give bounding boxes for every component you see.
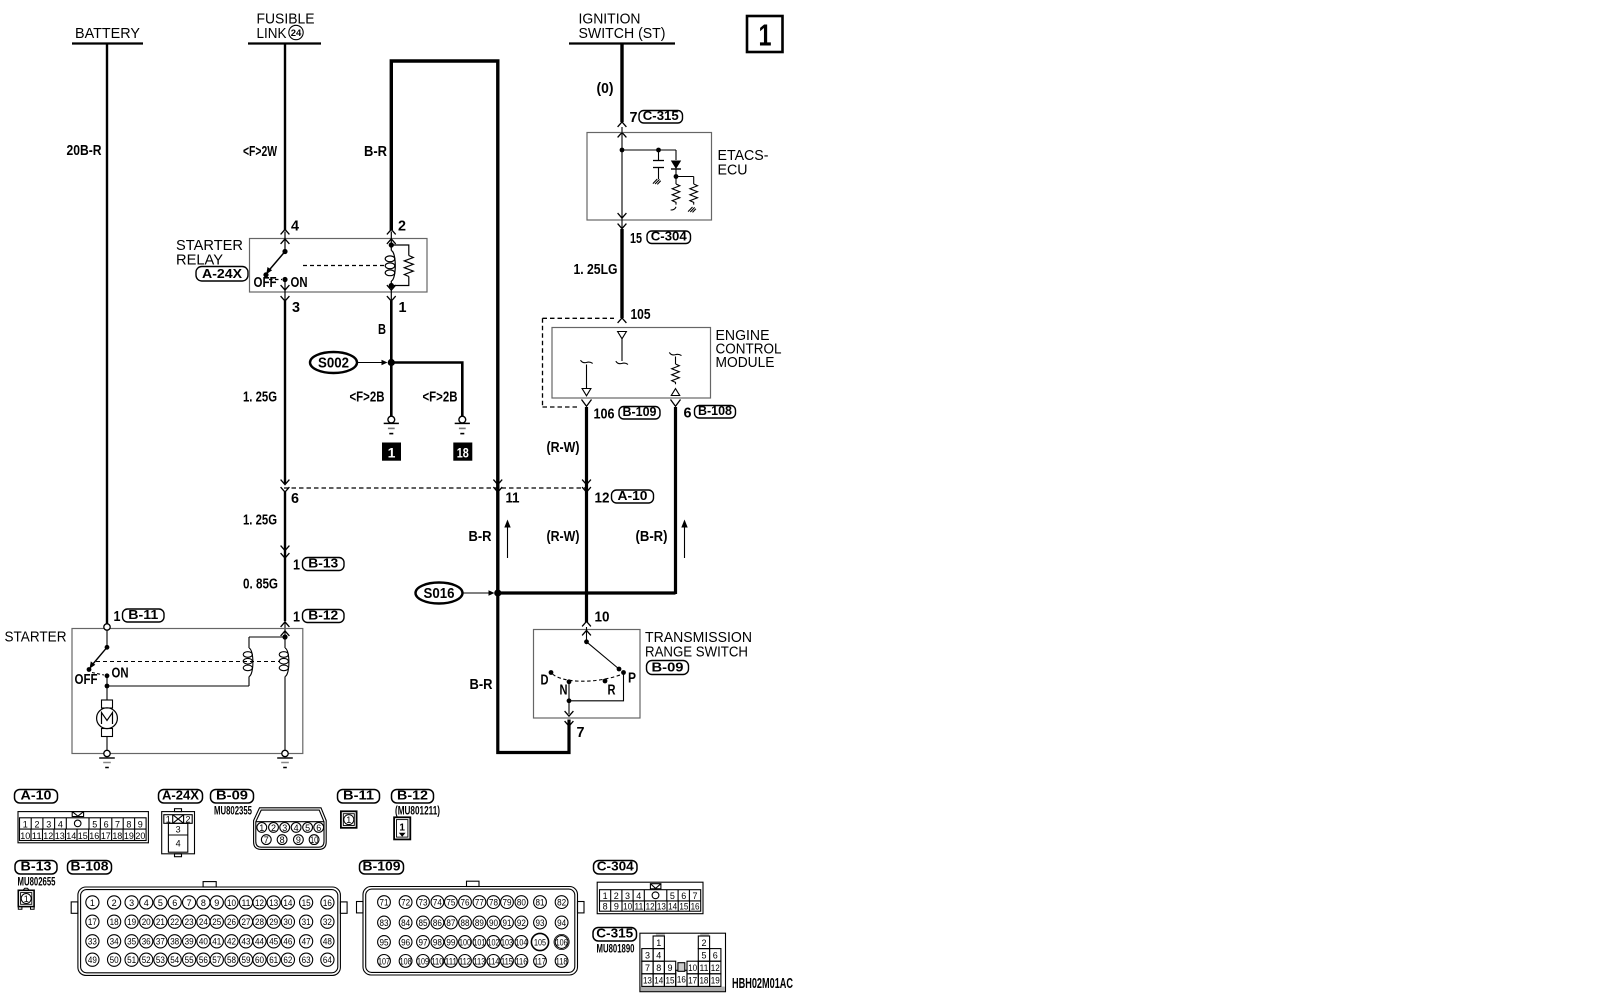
svg-text:15: 15 [630, 231, 642, 247]
starter OFF-ON dashed link [92, 673, 104, 676]
wire B-R from ECM 6 down to S016 [674, 407, 677, 594]
svg-text:C-304: C-304 [651, 228, 688, 243]
svg-text:44: 44 [255, 937, 264, 947]
svg-text:HBH02M01AC: HBH02M01AC [732, 976, 793, 992]
svg-text:B-09: B-09 [652, 659, 684, 674]
label pin 6 A-10 [291, 491, 299, 507]
starter motor M [97, 686, 118, 750]
svg-text:31: 31 [302, 917, 311, 927]
ETACS resistor 2 ground hatch [688, 207, 696, 212]
svg-text:RANGE SWITCH: RANGE SWITCH [645, 645, 748, 661]
TRS dashed selector arc [553, 674, 622, 681]
svg-text:118: 118 [556, 956, 568, 966]
svg-text:SWITCH (ST): SWITCH (ST) [579, 26, 666, 42]
connector B-13 pinout [18, 888, 34, 909]
ECM pin 105 internal input arrow [616, 332, 628, 365]
svg-text:A-24X: A-24X [162, 788, 199, 803]
page number box 1 [747, 16, 783, 53]
svg-text:57: 57 [212, 955, 221, 965]
svg-text:9: 9 [214, 898, 219, 908]
label MU801211 [395, 806, 440, 818]
svg-text:85: 85 [419, 918, 428, 928]
svg-text:1: 1 [23, 819, 28, 829]
relay pin 1 label [399, 300, 407, 316]
label MU802355 [214, 806, 252, 818]
svg-text:39: 39 [185, 937, 194, 947]
tag B-108 mid [695, 403, 736, 418]
svg-text:13: 13 [657, 901, 666, 911]
svg-text:82: 82 [557, 898, 566, 908]
svg-text:1: 1 [293, 558, 300, 574]
svg-text:98: 98 [433, 937, 442, 947]
starter motor ground terminal [104, 750, 110, 756]
TRS pin 10 chevrons [582, 621, 591, 635]
svg-text:35: 35 [127, 937, 136, 947]
svg-text:(0): (0) [597, 81, 614, 97]
svg-text:28: 28 [255, 917, 264, 927]
label pin 105 [631, 307, 651, 323]
wire B-R S016 to TRS pin 7 [498, 593, 569, 753]
svg-text:88: 88 [461, 918, 470, 928]
connector B-11 pinout [341, 811, 357, 828]
relay OFF-ON dashed link [269, 279, 282, 281]
label pin 12 [595, 491, 610, 507]
svg-text:48: 48 [323, 937, 332, 947]
starter hold coil [279, 637, 289, 750]
svg-text:B-108: B-108 [698, 403, 732, 418]
svg-text:A-24X: A-24X [202, 266, 242, 281]
svg-text:2: 2 [185, 814, 190, 824]
svg-text:5: 5 [701, 950, 706, 960]
label B [378, 322, 386, 338]
svg-text:(B-R): (B-R) [636, 529, 668, 545]
svg-text:7: 7 [264, 835, 269, 845]
svg-text:S016: S016 [424, 586, 455, 602]
A-10 pin 11 chevrons [493, 480, 502, 493]
label pin 6 [684, 406, 692, 422]
svg-text:3: 3 [46, 819, 51, 829]
svg-text:111: 111 [445, 956, 457, 966]
svg-text:6: 6 [291, 491, 299, 507]
svg-text:84: 84 [401, 918, 410, 928]
svg-text:B-09: B-09 [216, 788, 248, 803]
label <F>2B right [423, 390, 458, 406]
flow arrow up at 11 [504, 520, 510, 559]
svg-text:ON: ON [112, 666, 129, 682]
label (R-W) upper [547, 440, 580, 456]
svg-text:4: 4 [176, 839, 181, 849]
svg-text:1: 1 [114, 609, 121, 625]
svg-text:40: 40 [199, 937, 208, 947]
ETACS capacitor ground hatch [653, 179, 661, 184]
svg-text:106: 106 [556, 937, 568, 947]
tag B-109 mid [619, 404, 660, 419]
tag B-13 mid [303, 555, 345, 570]
svg-text:72: 72 [401, 898, 410, 908]
svg-text:16: 16 [677, 974, 686, 984]
svg-text:49: 49 [88, 955, 97, 965]
svg-text:10: 10 [688, 963, 697, 973]
label 1.25LG [574, 262, 618, 278]
svg-text:1: 1 [90, 898, 95, 908]
svg-text:42: 42 [227, 937, 236, 947]
svg-text:5: 5 [670, 891, 675, 901]
label MU801890 [597, 944, 635, 956]
svg-text:9: 9 [296, 835, 301, 845]
flow arrow up at B-R right [681, 520, 687, 559]
tag B-12 mid [303, 607, 345, 622]
label (B-R) [636, 529, 668, 545]
svg-text:53: 53 [156, 955, 165, 965]
label 1.25G upper [243, 390, 277, 406]
starter coil ground terminal [282, 750, 288, 756]
connector B-09 pinout [254, 808, 327, 850]
relay pin 4 label [291, 219, 299, 235]
TRS selector arm [584, 627, 621, 671]
wire B relay pin1 to S002 junction [390, 301, 393, 416]
svg-text:105: 105 [534, 937, 546, 947]
tag B-11 mid [123, 607, 165, 622]
svg-text:1: 1 [259, 823, 264, 833]
svg-text:5: 5 [92, 819, 97, 829]
ECM box [552, 328, 711, 399]
label pin 15 [630, 231, 642, 247]
ECM dashed outline [543, 318, 615, 407]
svg-text:15: 15 [666, 976, 675, 986]
node S002 junction [388, 359, 395, 366]
svg-text:7: 7 [115, 819, 120, 829]
starter relay tag A-24X [196, 266, 248, 281]
svg-text:61: 61 [269, 955, 278, 965]
svg-text:B-11: B-11 [128, 607, 158, 622]
svg-text:62: 62 [283, 955, 292, 965]
svg-text:4: 4 [636, 891, 641, 901]
relay resistor parallel branch [391, 245, 413, 286]
svg-text:D: D [541, 673, 549, 689]
ECM pin 6 exit chevron [671, 400, 681, 407]
svg-text:46: 46 [283, 937, 292, 947]
relay ON label [291, 275, 308, 291]
svg-text:37: 37 [156, 937, 165, 947]
svg-text:7: 7 [645, 963, 650, 973]
svg-text:8: 8 [603, 901, 608, 911]
svg-text:B-R: B-R [364, 144, 387, 160]
svg-text:76: 76 [461, 898, 470, 908]
svg-text:7: 7 [187, 898, 192, 908]
svg-text:20: 20 [135, 831, 145, 841]
connector A-10 dashed line [284, 487, 587, 489]
connector C-315 pin 7 chevrons [618, 122, 627, 137]
relay pin 2 label [398, 219, 406, 235]
svg-text:13: 13 [643, 976, 652, 986]
relay pin 3 connector chevrons [281, 285, 290, 301]
svg-text:10: 10 [595, 610, 610, 626]
svg-text:S002: S002 [318, 356, 349, 372]
TRS contact N [560, 679, 572, 698]
connector B-12 chevrons [281, 622, 290, 636]
svg-text:79: 79 [503, 898, 512, 908]
starter relay box [250, 239, 428, 293]
svg-text:18: 18 [457, 445, 469, 461]
connector C-304 tag [594, 859, 638, 875]
A-10 pin 12 chevrons [582, 480, 591, 493]
svg-text:1: 1 [656, 938, 661, 948]
connector A-24X tag [159, 788, 203, 804]
svg-text:2: 2 [701, 938, 706, 948]
svg-text:4: 4 [294, 823, 299, 833]
svg-text:8: 8 [201, 898, 206, 908]
svg-text:11: 11 [242, 898, 251, 908]
connector B-09 tag [211, 788, 254, 804]
svg-text:3: 3 [625, 891, 630, 901]
label MU802655 [18, 877, 56, 889]
label B-R lower [470, 677, 493, 693]
svg-text:12: 12 [646, 901, 655, 911]
svg-text:3: 3 [292, 300, 300, 316]
connector A-10 pinout [18, 812, 148, 843]
svg-text:56: 56 [199, 955, 208, 965]
svg-text:<F>2W: <F>2W [243, 144, 277, 160]
label ETACS-ECU [718, 148, 769, 179]
transmission range switch box [534, 630, 641, 719]
svg-text:18: 18 [699, 976, 708, 986]
svg-text:17: 17 [88, 917, 97, 927]
svg-text:17: 17 [101, 831, 111, 841]
relay pin 2 stub wire [390, 232, 392, 246]
splice S002 [310, 352, 388, 373]
wire relay pin4 stub [284, 232, 286, 251]
svg-text:14: 14 [654, 976, 663, 986]
svg-text:38: 38 [170, 937, 179, 947]
svg-text:3: 3 [129, 898, 134, 908]
svg-text:114: 114 [488, 956, 500, 966]
svg-text:C-304: C-304 [597, 859, 635, 874]
wire 1.25G A-10 to B-13 [284, 492, 286, 621]
ground for S002 branch 2 [455, 416, 470, 433]
svg-text:30: 30 [283, 917, 292, 927]
svg-text:34: 34 [110, 937, 119, 947]
svg-text:108: 108 [400, 956, 412, 966]
svg-text:117: 117 [534, 956, 546, 966]
wire battery 20B-R vertical [106, 44, 108, 626]
svg-text:22: 22 [170, 917, 179, 927]
svg-text:100: 100 [459, 937, 471, 947]
svg-text:6: 6 [681, 891, 686, 901]
svg-text:78: 78 [489, 898, 498, 908]
svg-text:3: 3 [282, 823, 287, 833]
svg-text:113: 113 [473, 956, 485, 966]
svg-text:B-12: B-12 [308, 607, 338, 622]
svg-text:B: B [378, 322, 386, 338]
svg-text:64: 64 [323, 955, 332, 965]
svg-text:15: 15 [78, 831, 88, 841]
connector C-304 pinout [597, 882, 703, 914]
svg-text:1. 25G: 1. 25G [243, 390, 277, 406]
svg-text:24: 24 [291, 28, 302, 39]
svg-text:19: 19 [127, 917, 136, 927]
svg-text:(MU801211): (MU801211) [395, 806, 440, 818]
wire B-R top rail [391, 61, 498, 593]
relay actuate dashed line [303, 265, 385, 267]
svg-text:54: 54 [170, 955, 179, 965]
svg-text:105: 105 [631, 307, 651, 323]
connector B-13 chevrons [281, 546, 290, 559]
relay pin 2 connector chevrons [387, 229, 396, 244]
starter actuate dashed line [96, 661, 280, 663]
label 0.85G [243, 577, 278, 593]
svg-text:5: 5 [305, 823, 310, 833]
A-10 pin 6 chevrons [281, 480, 290, 493]
connector C-315 tag [593, 926, 637, 942]
ECM pin 105 chevron [618, 318, 627, 323]
label pin 10 [595, 610, 610, 626]
connector A-10 tag [15, 788, 58, 804]
svg-text:B-R: B-R [470, 677, 493, 693]
label pin 7 [630, 110, 638, 126]
starter motor ground [99, 758, 115, 768]
svg-text:91: 91 [503, 918, 512, 928]
ECM pin 106 internal output arrow [581, 360, 593, 396]
svg-text:R: R [608, 683, 616, 699]
svg-text:95: 95 [380, 937, 389, 947]
svg-text:B-12: B-12 [397, 788, 428, 803]
wire fusible link <F>2W vertical [284, 44, 286, 231]
svg-text:104: 104 [515, 937, 527, 947]
relay OFF label [254, 275, 277, 291]
svg-text:2: 2 [112, 898, 117, 908]
svg-text:90: 90 [489, 918, 498, 928]
svg-text:14: 14 [668, 901, 677, 911]
svg-text:20B-R: 20B-R [67, 143, 102, 159]
svg-text:2: 2 [614, 891, 619, 901]
svg-text:71: 71 [380, 898, 389, 908]
connector A-24X pinout [162, 809, 195, 857]
svg-text:12: 12 [595, 491, 610, 507]
svg-text:B-109: B-109 [363, 859, 401, 874]
svg-text:B-109: B-109 [623, 404, 657, 419]
svg-text:25: 25 [212, 917, 221, 927]
svg-text:75: 75 [446, 898, 455, 908]
svg-text:99: 99 [446, 937, 455, 947]
connector B-12 tag [392, 788, 434, 804]
relay pin 1 connector chevrons [387, 285, 396, 301]
svg-text:36: 36 [142, 937, 151, 947]
svg-text:115: 115 [501, 956, 513, 966]
svg-text:4: 4 [58, 819, 63, 829]
svg-text:ON: ON [291, 275, 308, 291]
svg-text:86: 86 [433, 918, 442, 928]
svg-text:B-11: B-11 [343, 788, 374, 803]
ETACS resistor 2 [676, 177, 698, 205]
ETACS diode [671, 150, 681, 179]
svg-text:1: 1 [603, 891, 608, 901]
TRS P to N wire [567, 673, 624, 715]
label <F>2W [243, 144, 277, 160]
relay switch arm [263, 249, 287, 278]
svg-text:BATTERY: BATTERY [75, 26, 140, 42]
svg-text:7: 7 [577, 725, 585, 741]
relay ON terminal [282, 277, 287, 301]
starter ON label [112, 666, 129, 682]
svg-text:102: 102 [488, 937, 500, 947]
svg-text:50: 50 [110, 955, 119, 965]
starter relay label STARTER RELAY [176, 238, 243, 269]
svg-text:41: 41 [212, 937, 221, 947]
svg-text:B-R: B-R [469, 529, 492, 545]
wire 1.25LG [620, 229, 623, 318]
svg-text:8: 8 [280, 835, 285, 845]
svg-text:47: 47 [302, 937, 311, 947]
svg-text:83: 83 [380, 918, 389, 928]
tag C-315 top [639, 108, 683, 123]
svg-text:11: 11 [506, 491, 520, 507]
power feed BATTERY label [72, 26, 143, 44]
svg-text:7: 7 [692, 891, 697, 901]
svg-text:MU802355: MU802355 [214, 806, 252, 818]
svg-text:23: 23 [185, 917, 194, 927]
ECM pin 106 exit chevron [582, 400, 592, 407]
svg-text:2: 2 [34, 819, 39, 829]
svg-text:51: 51 [127, 955, 136, 965]
svg-text:55: 55 [185, 955, 194, 965]
label 20B-R [67, 143, 102, 159]
svg-text:C-315: C-315 [596, 926, 633, 941]
svg-text:24: 24 [199, 917, 208, 927]
svg-text:93: 93 [536, 918, 545, 928]
svg-text:80: 80 [517, 898, 526, 908]
svg-text:52: 52 [142, 955, 151, 965]
starter switch arm [87, 630, 110, 672]
svg-text:<F>2B: <F>2B [350, 390, 385, 406]
svg-text:11: 11 [699, 963, 708, 973]
svg-text:33: 33 [88, 937, 97, 947]
connector B-109 pinout [357, 881, 585, 975]
svg-text:74: 74 [433, 898, 442, 908]
svg-text:109: 109 [417, 956, 429, 966]
svg-text:97: 97 [419, 937, 428, 947]
svg-text:112: 112 [459, 956, 471, 966]
svg-text:10: 10 [310, 835, 318, 845]
svg-text:19: 19 [711, 976, 720, 986]
svg-text:P: P [628, 671, 636, 687]
svg-text:60: 60 [255, 955, 264, 965]
svg-text:89: 89 [475, 918, 484, 928]
label (0) [597, 81, 614, 97]
wire S002 branch to ground 18 [391, 363, 462, 417]
sheet code HBH02M01AC [732, 976, 793, 992]
svg-text:1: 1 [388, 445, 396, 461]
label pin 7 TRS [577, 725, 585, 741]
svg-text:1. 25G: 1. 25G [243, 513, 277, 529]
relay coil [385, 242, 395, 301]
svg-text:1: 1 [166, 814, 171, 824]
node S016 junction [494, 589, 501, 596]
label ENGINE CONTROL MODULE [716, 328, 782, 371]
ECM pin 6 internal resistor [669, 352, 681, 395]
svg-text:73: 73 [419, 898, 428, 908]
svg-text:2: 2 [271, 823, 276, 833]
svg-text:13: 13 [269, 898, 278, 908]
svg-text:18: 18 [110, 917, 119, 927]
svg-text:96: 96 [401, 937, 410, 947]
svg-text:9: 9 [138, 819, 143, 829]
svg-text:21: 21 [156, 917, 165, 927]
svg-text:1: 1 [346, 815, 351, 825]
svg-text:9: 9 [668, 963, 673, 973]
label (R-W) lower [547, 529, 580, 545]
svg-text:17: 17 [688, 976, 697, 986]
svg-text:94: 94 [557, 918, 566, 928]
